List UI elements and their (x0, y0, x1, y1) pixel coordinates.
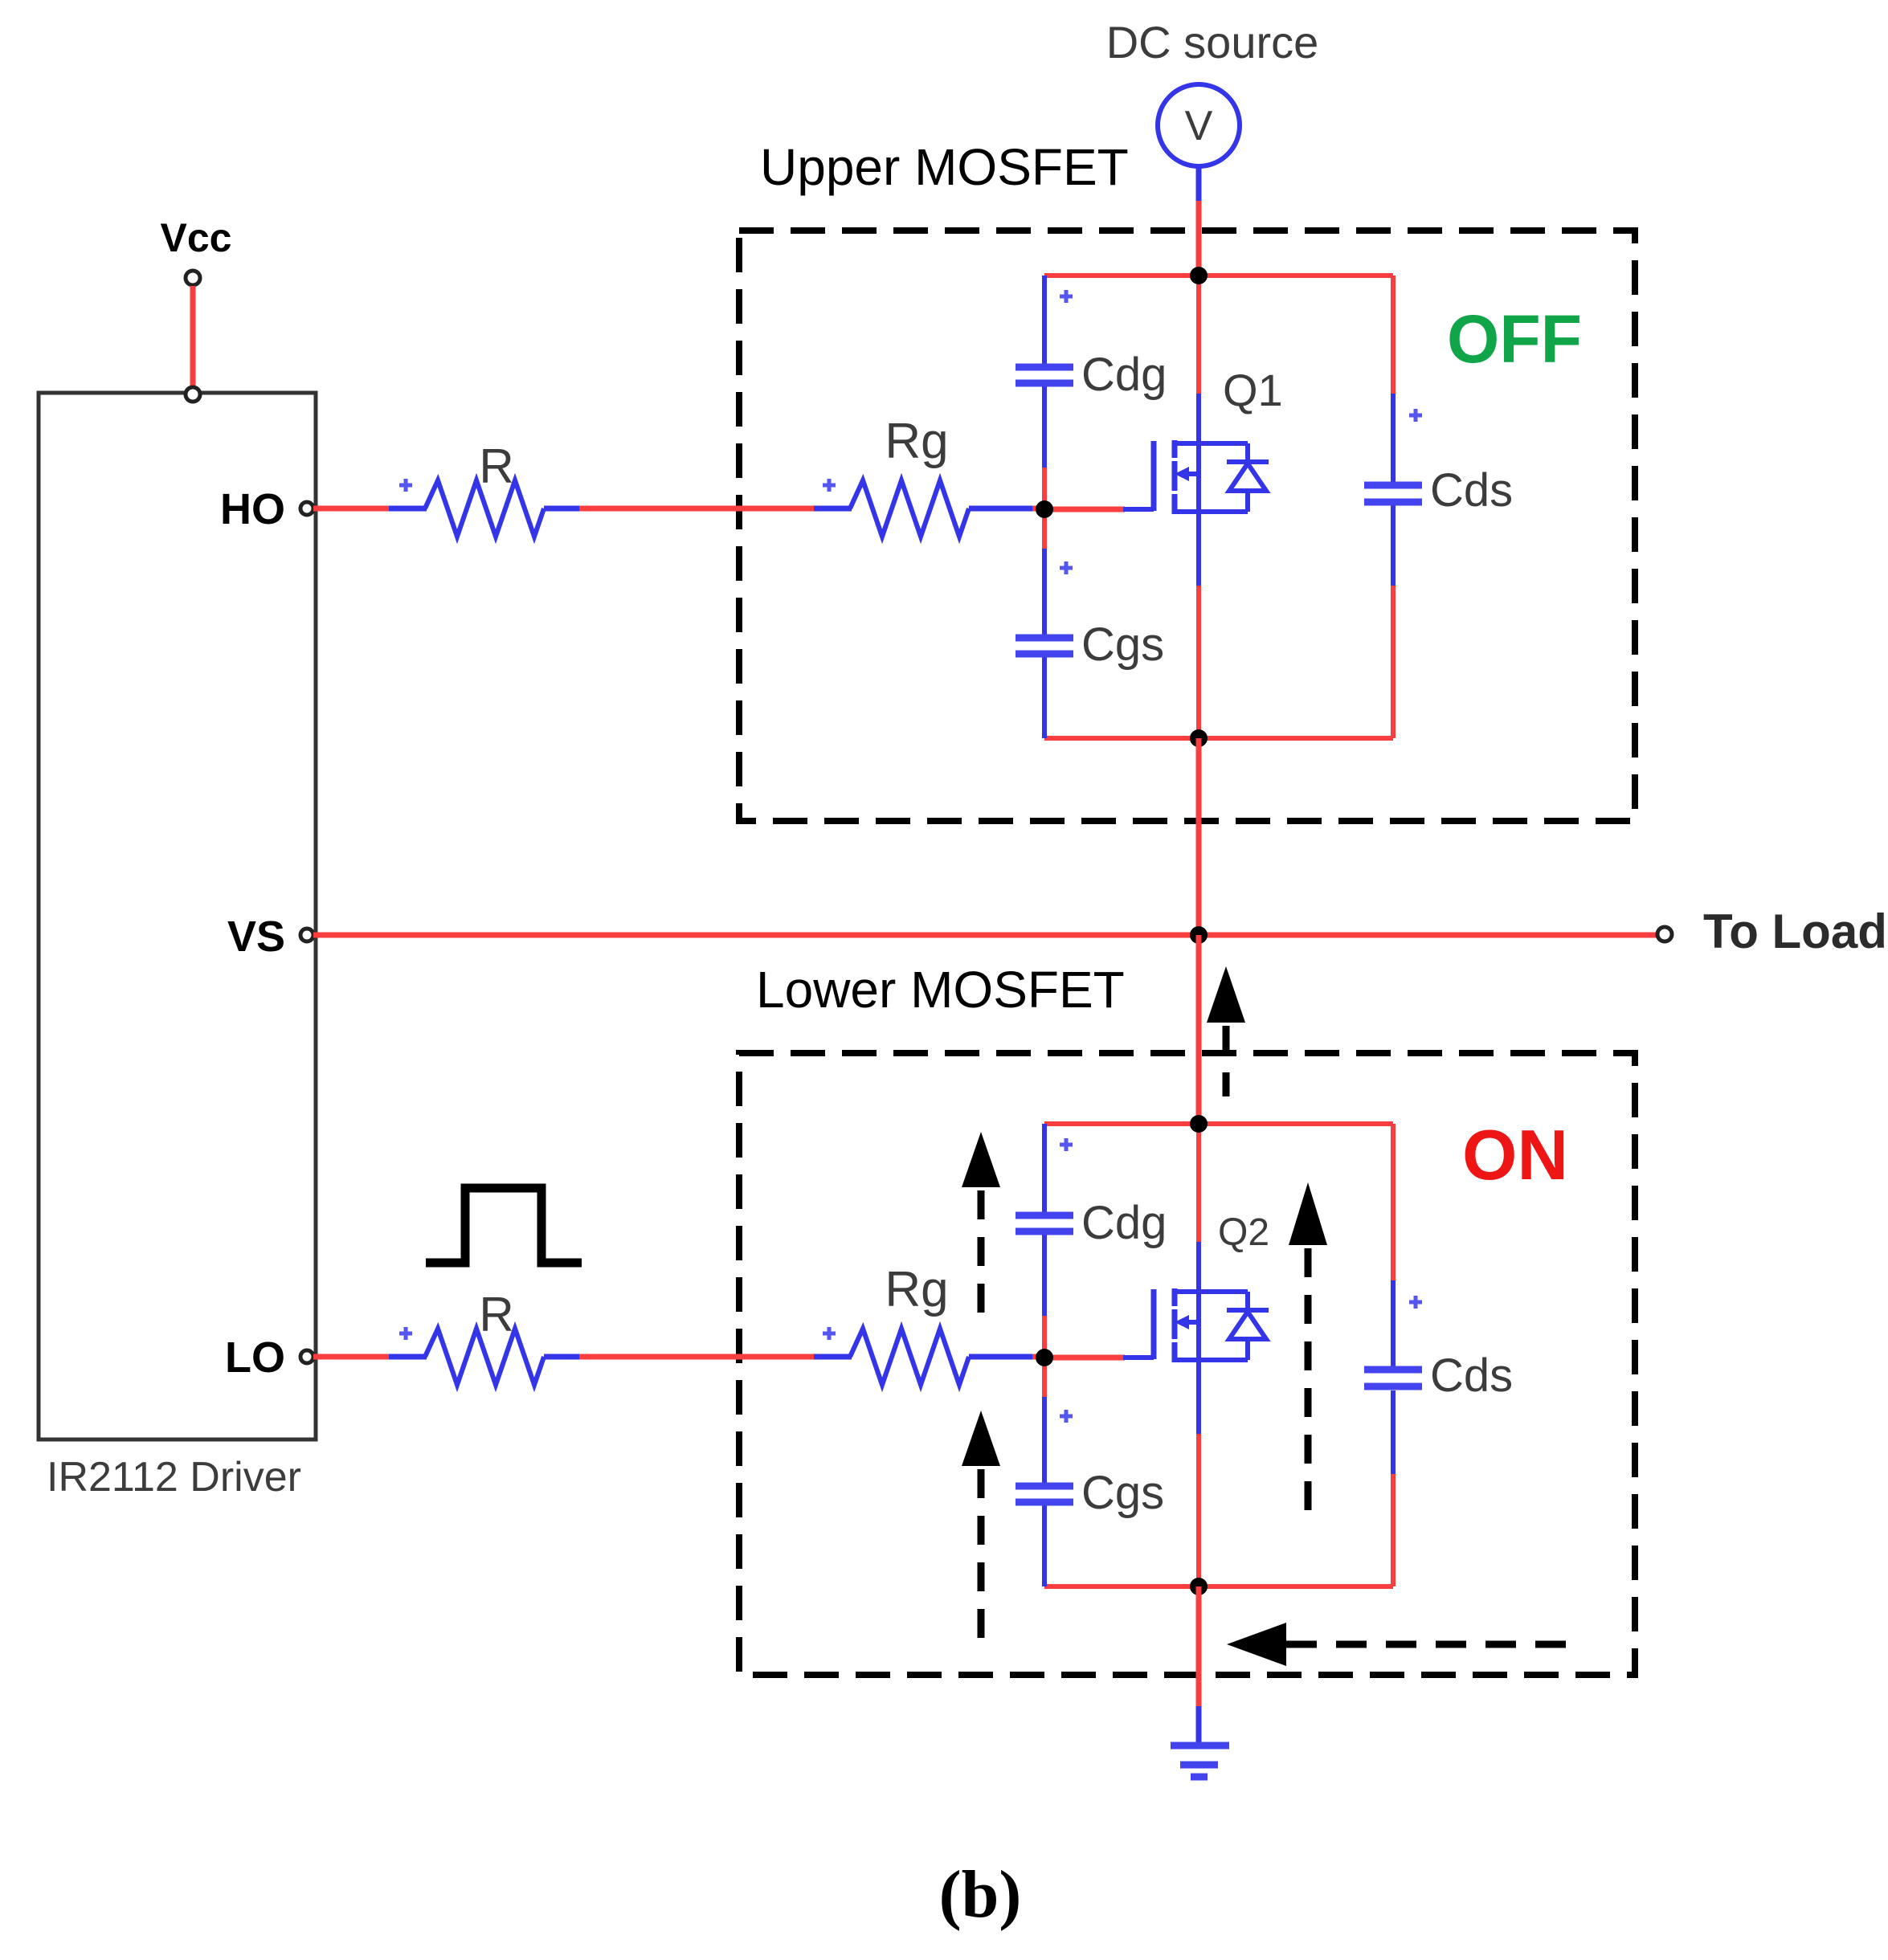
svg-text:Cgs: Cgs (1081, 1467, 1164, 1519)
svg-text:IR2112 Driver: IR2112 Driver (47, 1454, 301, 1501)
wire gate node to Q2 gate (1044, 1355, 1125, 1361)
svg-text:DC source: DC source (1106, 17, 1319, 67)
lower cell: top rail (1044, 1121, 1393, 1126)
wire Vcc to box (190, 286, 196, 387)
node: upper source junction (1190, 729, 1208, 747)
svg-text:Cdg: Cdg (1081, 1197, 1167, 1249)
svg-text:Rg: Rg (885, 1262, 948, 1317)
node VS junction (1190, 926, 1208, 944)
dashed arrow: return current (bottom, pointing left) (1227, 1623, 1581, 1666)
probe dots lower-left branch (1060, 1138, 1073, 1423)
svg-text:Upper MOSFET: Upper MOSFET (760, 138, 1129, 196)
Vcc terminal (186, 271, 200, 285)
pulse input symbol (426, 1188, 582, 1263)
resistor Rg (upper) (850, 480, 969, 537)
lower drain/source vertical (1196, 1124, 1201, 1586)
upper MOSFET dashed box (739, 231, 1635, 821)
resistor Rg (lower) (850, 1329, 969, 1385)
box top terminal (186, 387, 200, 402)
probe dot (823, 479, 836, 492)
dashed arrow: Cds current (right) (1289, 1182, 1327, 1525)
capacitor Cgs (lower) (1016, 1486, 1073, 1502)
LO pin terminal (300, 1350, 313, 1363)
svg-text:R: R (479, 439, 513, 493)
svg-text:Cdg: Cdg (1081, 349, 1167, 401)
dashed arrow: Cdg displacement current (upper-left) (962, 1132, 1000, 1315)
wire VS to To Load (313, 933, 1656, 938)
resistor R (lower) (425, 1329, 544, 1385)
svg-text:VS: VS (227, 913, 285, 961)
wire HO to R (313, 506, 389, 512)
svg-text:Cgs: Cgs (1081, 619, 1164, 671)
VS pin terminal (300, 929, 313, 941)
svg-text:V: V (1185, 103, 1213, 149)
wire: V source to upper box (blue then red) (1196, 166, 1202, 278)
dashed arrow: Cgs current (lower-left) (962, 1411, 1000, 1639)
svg-text:To Load: To Load (1703, 904, 1887, 958)
lower left branch (Cdg / Cgs) (1042, 1124, 1047, 1586)
lower cell: bottom rail (1044, 1584, 1393, 1589)
wire R to Rg (lower) (544, 1354, 579, 1360)
capacitor Cds (lower) (1364, 1370, 1422, 1386)
svg-text:ON: ON (1462, 1115, 1568, 1194)
wire R to Rg (544, 506, 579, 512)
svg-text:R: R (479, 1288, 513, 1341)
lower right branch Cds (1391, 1124, 1396, 1586)
svg-text:HO: HO (220, 485, 285, 533)
upper right branch Cds (1391, 276, 1396, 738)
ground (1171, 1746, 1229, 1777)
node: lower source junction (1190, 1578, 1208, 1595)
wire gate node to Q1 gate (1044, 507, 1125, 512)
capacitor Cds (upper) (1364, 485, 1422, 502)
svg-text:Q1: Q1 (1223, 365, 1283, 415)
IR2112 driver box U1 (39, 393, 316, 1439)
svg-text:Lower MOSFET: Lower MOSFET (756, 961, 1125, 1019)
svg-text:(b): (b) (939, 1857, 1022, 1932)
voltage source V1 (DC source circle) (1158, 84, 1240, 166)
upper drain/source vertical (1196, 276, 1201, 738)
lower MOSFET dashed box (739, 1053, 1635, 1675)
wire Rg to gate node (969, 506, 1032, 512)
svg-text:LO: LO (225, 1333, 285, 1382)
To Load terminal (1657, 927, 1672, 941)
transistor Q1 (MOSFET) (1123, 440, 1269, 514)
wire LO to R (313, 1354, 389, 1360)
svg-text:Vcc: Vcc (161, 215, 232, 260)
transistor Q2 (MOSFET) (1123, 1288, 1269, 1362)
node: lower drain junction (1190, 1115, 1208, 1133)
capacitor Cdg (upper) (1016, 367, 1073, 383)
probe dot (399, 479, 412, 492)
svg-text:Cds: Cds (1430, 1350, 1513, 1402)
svg-text:Rg: Rg (885, 414, 948, 469)
HO pin terminal (300, 502, 313, 515)
svg-text:OFF: OFF (1447, 301, 1582, 377)
probe dot Cds lower (1409, 1296, 1422, 1309)
svg-text:Q2: Q2 (1218, 1211, 1269, 1254)
wire: lower cell to ground (1196, 1586, 1202, 1744)
node: upper drain junction (1190, 267, 1208, 284)
svg-text:Cds: Cds (1430, 464, 1513, 517)
resistor R (upper) (425, 480, 544, 537)
wire: upper cell to VS node (1196, 738, 1202, 935)
node: upper gate junction (1036, 500, 1053, 518)
wire Rg to gate node (lower) (969, 1354, 1032, 1360)
wire: VS node to lower cell (1196, 935, 1202, 1124)
probe dot Cds upper (1409, 409, 1422, 422)
probe dots upper-left branch (1060, 290, 1073, 574)
upper cell: bottom rail (1044, 736, 1393, 741)
probe dot (399, 1327, 412, 1340)
capacitor Cgs (upper) (1016, 638, 1073, 654)
capacitor Cdg (lower) (1016, 1215, 1073, 1231)
upper left branch (Cdg / Cgs) (1042, 276, 1047, 738)
probe dot (823, 1327, 836, 1340)
node: lower gate junction (1036, 1349, 1053, 1366)
upper cell: top rail (1044, 273, 1393, 278)
dashed arrow: current into VS node (1207, 966, 1245, 1096)
